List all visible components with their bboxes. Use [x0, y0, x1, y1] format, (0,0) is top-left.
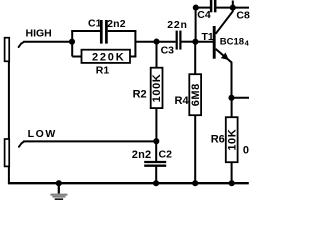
wire supply rail node D to sheet edge [233, 7, 249, 9]
capacitor C4 plates [211, 0, 215, 12]
wire stub up from node D (to C8 off-sheet) [232, 1, 234, 8]
svg-text:LOW: LOW [28, 128, 57, 140]
wire right vertical of parallel block [134, 31, 136, 57]
svg-text:BC18: BC18 [220, 36, 244, 47]
node B (junction dot) [153, 39, 159, 45]
svg-text:R1: R1 [96, 65, 110, 77]
wire node B to C3 [157, 41, 176, 43]
transistor T1 base bar [213, 26, 216, 59]
resistor R1 body [82, 50, 131, 63]
wire C3 to node C [181, 41, 195, 43]
svg-text:R6: R6 [211, 133, 225, 145]
wire LOW input to node F [23, 140, 156, 142]
capacitor C2 plates [144, 162, 166, 166]
svg-text:C2: C2 [159, 149, 173, 161]
transistor T1 emitter lead with arrow [216, 49, 232, 98]
wire node E down to R6 [231, 98, 233, 117]
wire top rail C1 to right vertical [108, 30, 137, 32]
wire node C down to R4 [194, 42, 196, 74]
wire C2 to ground bus [155, 166, 157, 184]
node ground (junction dot) [56, 180, 62, 186]
svg-text:2n2: 2n2 [132, 149, 152, 161]
wire node C up to supply rail [195, 8, 197, 42]
wire R2 to node F [155, 108, 157, 141]
capacitor C3 plates [177, 31, 181, 50]
jack J1 upper contact (HIGH input) [5, 38, 24, 62]
wire node C to T1 base [196, 41, 214, 43]
svg-text:C4: C4 [197, 9, 211, 21]
wire top rail to C1 [71, 30, 100, 32]
node R6-bus (junction dot) [229, 180, 235, 186]
svg-text:T1: T1 [202, 31, 214, 43]
resistor R4 body [189, 74, 201, 115]
ground symbol [50, 183, 67, 200]
wire emitter output to sheet edge [232, 97, 250, 99]
wire left vertical of C1/R1 parallel block [71, 31, 73, 57]
jack J1 lower contact (LOW input) [5, 139, 24, 166]
resistor R2 body [151, 68, 163, 108]
wire bottom rail node A to R1 [72, 56, 81, 58]
svg-text:C3: C3 [161, 45, 175, 57]
node D (junction dot) [230, 5, 236, 11]
wire R1 to right vertical [130, 56, 136, 58]
svg-text:100K: 100K [151, 74, 163, 103]
wire R4 to ground bus [194, 115, 196, 183]
resistor R6 body [226, 117, 238, 162]
svg-text:220K: 220K [92, 52, 126, 64]
svg-text:R2: R2 [133, 88, 147, 100]
svg-text:6M8: 6M8 [190, 83, 202, 106]
wire C4 to node D [216, 7, 233, 9]
node A (junction dot) [69, 39, 75, 45]
wire node F down to C2 [155, 141, 157, 162]
node top-left of C4 (junction dot) [193, 5, 199, 11]
node C2-bus (junction dot) [153, 180, 159, 186]
svg-text:2n2: 2n2 [107, 18, 126, 30]
svg-text:C1: C1 [88, 18, 102, 30]
svg-text:22n: 22n [167, 19, 188, 31]
wire HIGH input to node A [23, 41, 72, 43]
wire ground bus [8, 182, 249, 184]
svg-text:10K: 10K [226, 129, 238, 151]
node R4-bus (junction dot) [192, 180, 198, 186]
node E emitter junction (dot) [228, 95, 234, 101]
wire parallel block to node B [135, 41, 157, 43]
capacitor C1 plates [101, 20, 106, 44]
transistor T1 collector lead [216, 8, 233, 34]
wire jack sleeve rail upper-to-lower [8, 61, 10, 139]
wire R6 to ground bus [231, 162, 233, 183]
svg-text:R4: R4 [175, 95, 190, 107]
svg-text:C8: C8 [236, 10, 250, 22]
wire supply rail to C4 [196, 7, 210, 9]
svg-text:0: 0 [243, 145, 249, 157]
svg-text:HIGH: HIGH [26, 28, 52, 40]
wire node B down to R2 [156, 42, 158, 68]
node C (junction dot) [192, 39, 198, 45]
node F low-junction (dot) [153, 138, 159, 144]
wire jack sleeve to ground bus corner [8, 166, 10, 183]
